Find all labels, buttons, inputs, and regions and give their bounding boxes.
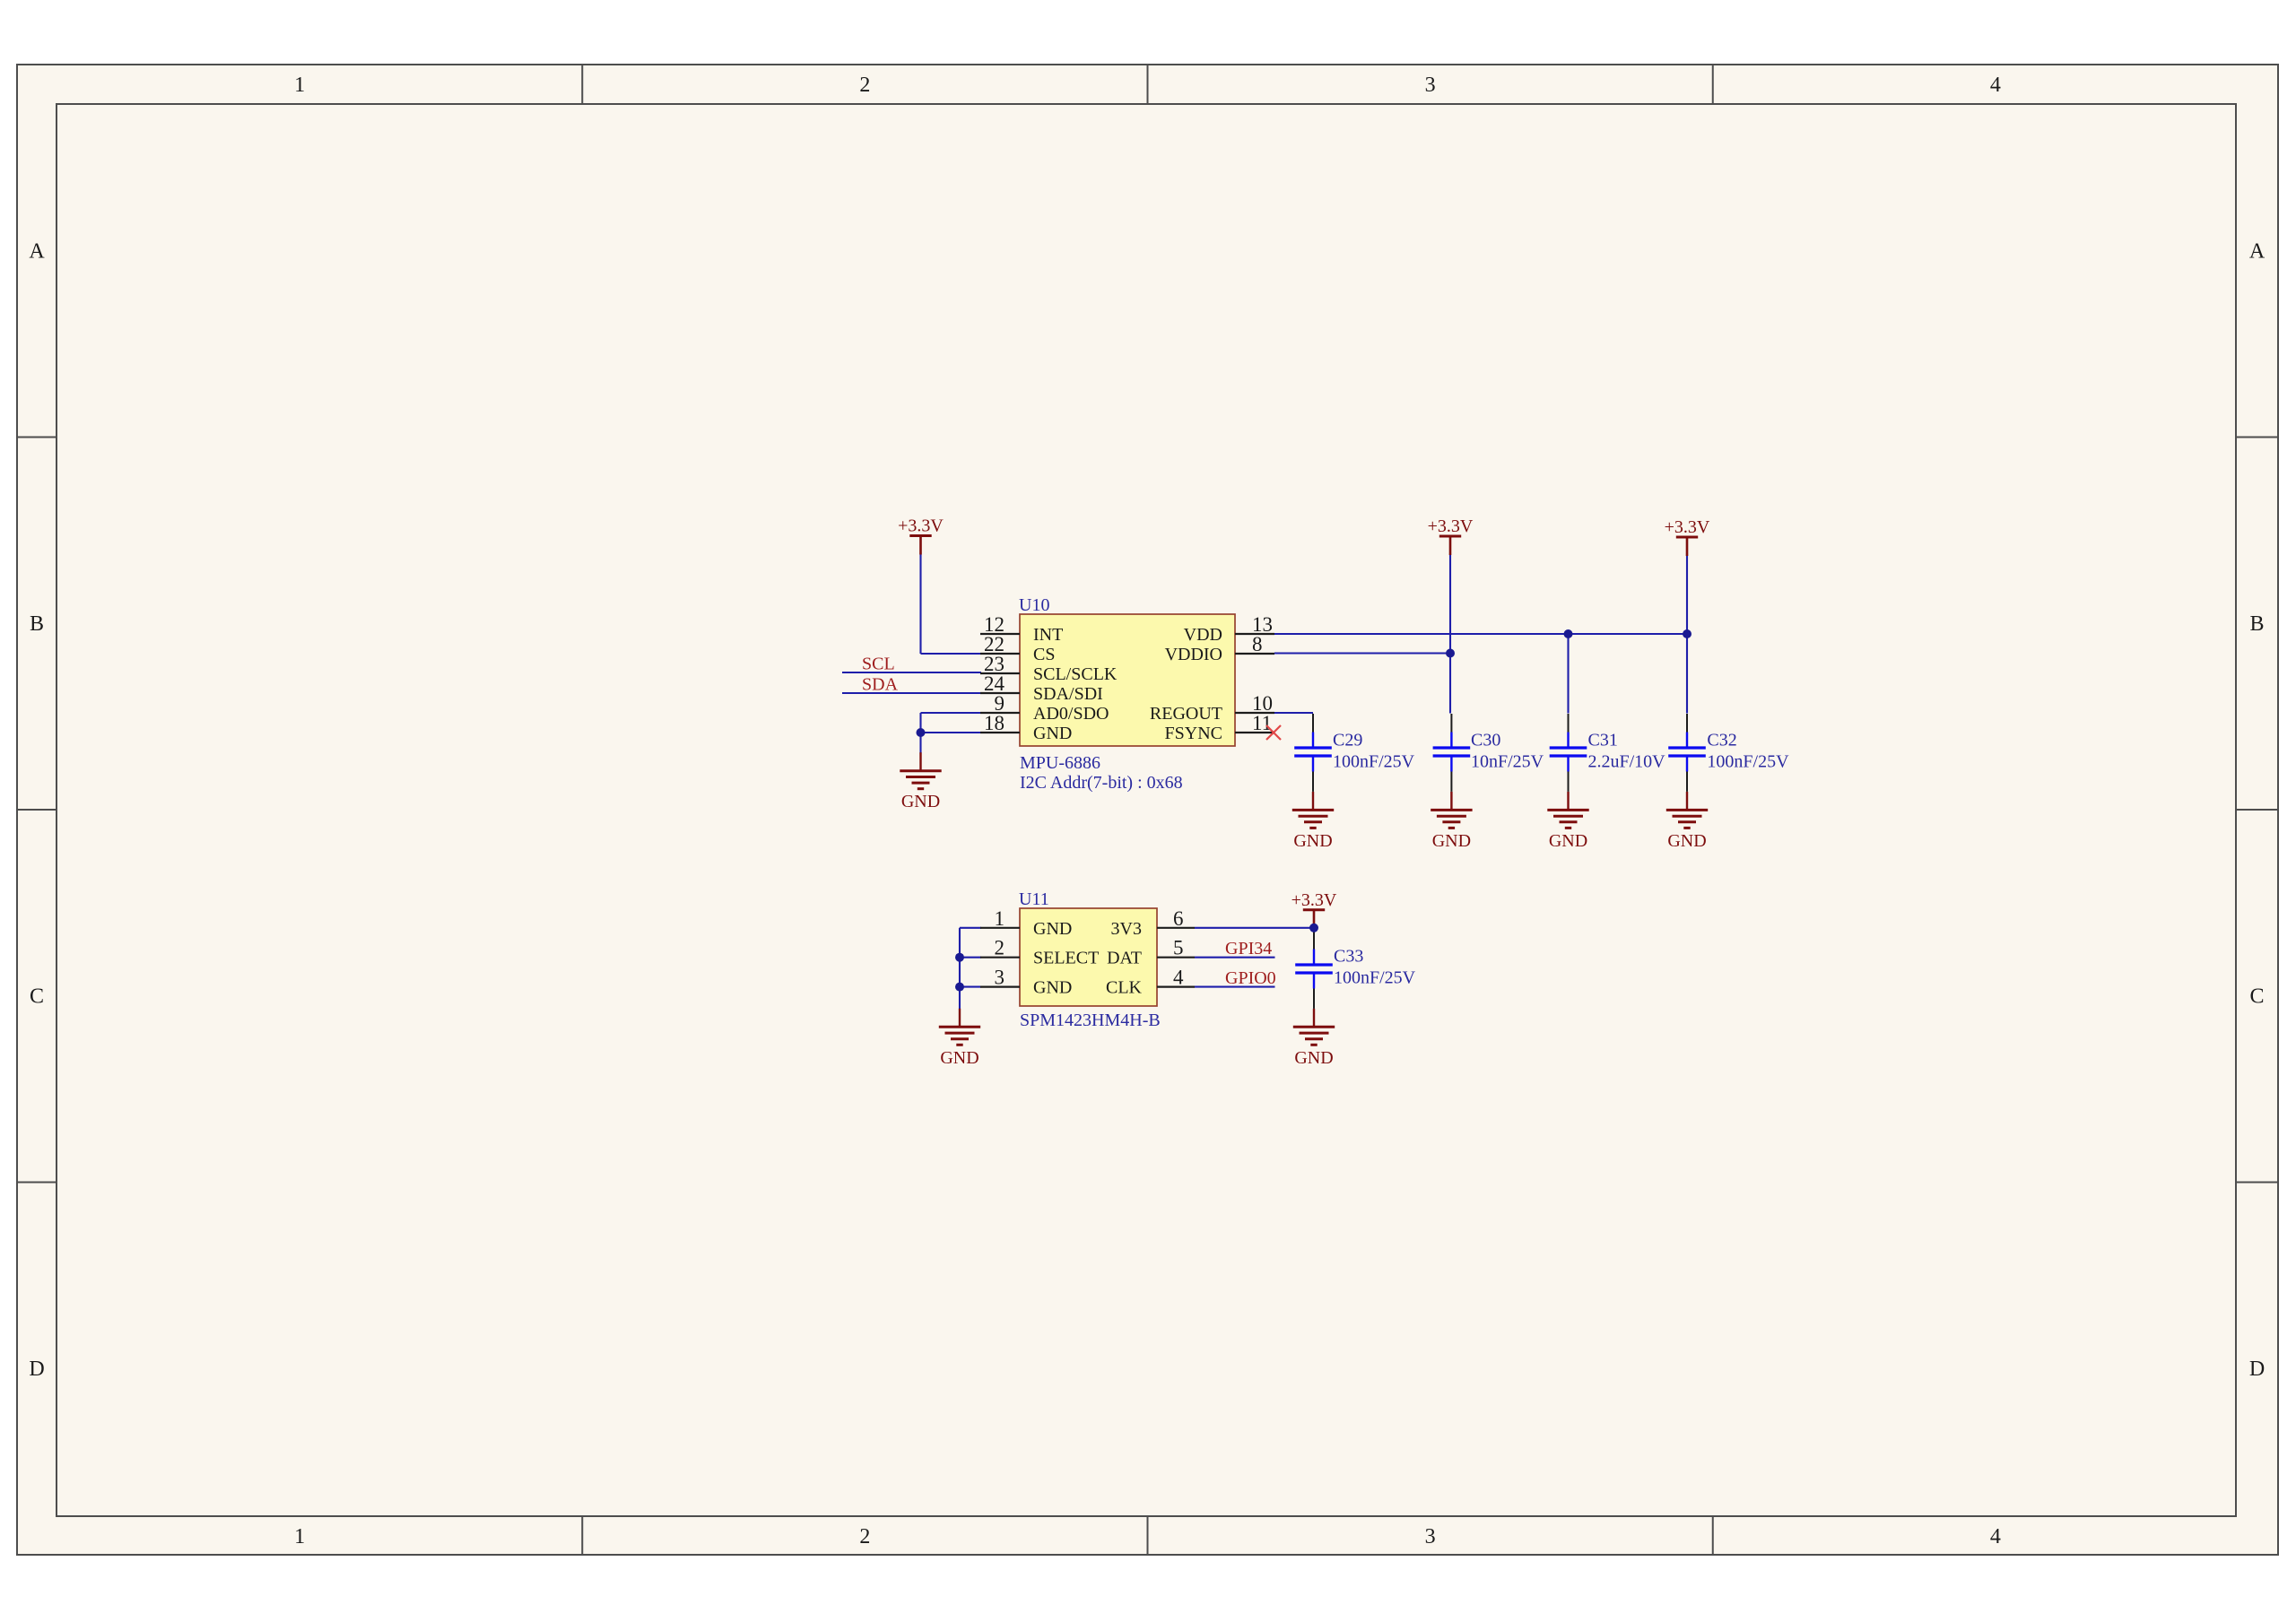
wire U11 pin3 stub — [960, 986, 981, 988]
svg-text:+3.3V: +3.3V — [1291, 890, 1337, 910]
wire net GPI34 — [1195, 957, 1275, 958]
svg-text:SCL: SCL — [862, 655, 895, 674]
U10 pin 12 INT — [980, 613, 1063, 645]
svg-text:U11: U11 — [1019, 889, 1049, 909]
ground (C30) — [1431, 792, 1472, 851]
junction VDDIO/C30 — [1446, 649, 1455, 658]
svg-text:CS: CS — [1033, 645, 1055, 664]
svg-text:3: 3 — [1425, 1525, 1436, 1548]
U11 pin 1 GND — [980, 907, 1072, 939]
power +3.3V (C32/VDD) — [1665, 517, 1710, 556]
ground (C31) — [1547, 792, 1588, 851]
label C29 value — [1333, 731, 1415, 772]
capacitor C33 — [1295, 931, 1333, 1009]
svg-text:REGOUT: REGOUT — [1150, 704, 1222, 724]
svg-text:B: B — [2249, 612, 2264, 636]
svg-text:GPI34: GPI34 — [1225, 939, 1272, 958]
svg-text:GND: GND — [1432, 831, 1471, 851]
svg-text:4: 4 — [1990, 74, 2001, 97]
U11 pin 4 CLK — [1106, 967, 1195, 998]
svg-text:18: 18 — [984, 712, 1004, 734]
junction U11 pin2 — [955, 953, 964, 962]
U10 pin 8 VDDIO — [1165, 633, 1274, 664]
U10 pin 24 SDA/SDI — [980, 672, 1103, 704]
wire U10 AD0 to GND vertical — [919, 713, 921, 753]
power +3.3V (U11/C33) — [1291, 890, 1337, 929]
svg-text:100nF/25V: 100nF/25V — [1707, 752, 1789, 772]
svg-text:A: A — [2249, 240, 2266, 264]
svg-text:U10: U10 — [1019, 595, 1049, 615]
svg-text:FSYNC: FSYNC — [1165, 724, 1222, 743]
svg-text:10nF/25V: 10nF/25V — [1471, 752, 1544, 772]
svg-text:VDD: VDD — [1184, 625, 1222, 645]
frame row ticks — [17, 438, 2278, 1183]
U10 pin 23 SCL/SCLK — [980, 653, 1118, 684]
svg-text:VDDIO: VDDIO — [1165, 645, 1222, 664]
U11 pin 5 DAT — [1107, 937, 1195, 968]
junction VDD/C31 — [1564, 629, 1573, 638]
svg-text:+3.3V: +3.3V — [1428, 516, 1474, 536]
wire +3.3V to U10 CS horizontal — [921, 653, 982, 655]
junction U11 3V3/C33 — [1309, 924, 1318, 932]
svg-text:C30: C30 — [1471, 731, 1500, 750]
svg-text:SDA: SDA — [862, 675, 899, 695]
svg-text:SDA/SDI: SDA/SDI — [1033, 684, 1103, 704]
wire U11 pin1 stub — [960, 927, 981, 929]
label C30 value — [1471, 731, 1544, 772]
svg-text:1: 1 — [294, 1525, 305, 1548]
junction U10 GND/AD0 — [917, 728, 926, 737]
svg-text:2: 2 — [859, 1525, 870, 1548]
svg-text:GND: GND — [1033, 724, 1072, 743]
wire +3.3V to C30 vertical — [1449, 553, 1451, 714]
U10 pin 18 GND — [980, 712, 1072, 743]
U11 pin 3 GND — [980, 967, 1072, 998]
junction U11 pin3 — [955, 983, 964, 992]
svg-text:GND: GND — [1667, 831, 1706, 851]
ground (U10 GND pin) — [900, 752, 941, 811]
svg-text:B: B — [30, 612, 44, 636]
wire U11 left bus vertical — [959, 928, 961, 1009]
svg-text:C29: C29 — [1333, 731, 1362, 750]
svg-text:SPM1423HM4H-B: SPM1423HM4H-B — [1020, 1010, 1161, 1030]
U10 pin 9 AD0/SDO — [980, 692, 1109, 724]
U10 pin 11 FSYNC — [1165, 712, 1274, 743]
wire U10 GND pin horizontal — [921, 732, 982, 733]
svg-text:SELECT: SELECT — [1033, 949, 1099, 968]
capacitor C32 — [1668, 714, 1706, 792]
svg-text:C33: C33 — [1334, 947, 1363, 967]
svg-text:C: C — [30, 985, 44, 1009]
svg-text:C: C — [2249, 985, 2264, 1009]
svg-text:CLK: CLK — [1106, 978, 1143, 998]
svg-text:8: 8 — [1252, 633, 1263, 655]
svg-text:GND: GND — [1033, 978, 1072, 998]
U10 pin 10 REGOUT — [1150, 692, 1274, 724]
U11 pin 6 3V3 — [1111, 907, 1195, 939]
svg-text:3: 3 — [1425, 74, 1436, 97]
wire VDD to C31 vertical — [1567, 634, 1569, 714]
svg-text:SCL/SCLK: SCL/SCLK — [1033, 664, 1118, 684]
svg-text:C32: C32 — [1707, 731, 1736, 750]
svg-text:5: 5 — [1173, 937, 1184, 959]
ground (C32) — [1666, 792, 1708, 851]
wire +3.3V to U10 CS vertical — [919, 553, 921, 655]
wire U11 pin2 stub — [960, 957, 981, 958]
svg-text:1: 1 — [995, 907, 1005, 930]
svg-text:3: 3 — [995, 967, 1005, 989]
svg-text:INT: INT — [1033, 625, 1063, 645]
wire net SDA — [842, 692, 981, 694]
svg-text:100nF/25V: 100nF/25V — [1333, 752, 1415, 772]
capacitor C29 — [1294, 714, 1332, 792]
no-connect X on U10 pin 11 FSYNC — [1266, 725, 1281, 740]
power +3.3V (U10 CS) — [898, 516, 944, 555]
junction VDD/C32 — [1683, 629, 1692, 638]
svg-text:4: 4 — [1990, 1525, 2001, 1548]
svg-text:1: 1 — [294, 74, 305, 97]
capacitor C31 — [1550, 714, 1587, 792]
svg-text:11: 11 — [1252, 712, 1272, 734]
svg-text:6: 6 — [1173, 907, 1184, 930]
svg-text:2.2uF/10V: 2.2uF/10V — [1588, 752, 1666, 772]
ground (C29) — [1292, 792, 1334, 851]
frame row labels — [29, 240, 2266, 1382]
svg-text:GND: GND — [1294, 1048, 1333, 1068]
svg-text:DAT: DAT — [1107, 949, 1142, 968]
svg-text:GND: GND — [1293, 831, 1332, 851]
svg-text:2: 2 — [995, 937, 1005, 959]
frame column ticks — [582, 65, 1713, 1555]
svg-text:MPU-6886: MPU-6886 — [1020, 753, 1100, 773]
ground (U11 pins) — [939, 1009, 980, 1068]
wire net SCL — [842, 672, 981, 673]
svg-text:AD0/SDO: AD0/SDO — [1033, 704, 1109, 724]
wire U11 3V3 to +3.3V/C33 — [1195, 927, 1314, 929]
svg-text:100nF/25V: 100nF/25V — [1334, 968, 1416, 988]
svg-text:GPIO0: GPIO0 — [1225, 968, 1276, 988]
frame column labels — [294, 74, 2001, 1548]
wire VDD rail — [1274, 633, 1687, 635]
label C33 value — [1334, 947, 1416, 988]
svg-text:+3.3V: +3.3V — [1665, 517, 1710, 537]
svg-text:+3.3V: +3.3V — [898, 516, 944, 536]
wire net GPIO0 — [1195, 986, 1275, 988]
U11 pin 2 SELECT — [980, 937, 1099, 968]
svg-text:D: D — [29, 1357, 44, 1381]
svg-text:GND: GND — [1549, 831, 1587, 851]
svg-text:I2C Addr(7-bit) : 0x68: I2C Addr(7-bit) : 0x68 — [1020, 773, 1183, 793]
label C32 value — [1707, 731, 1789, 772]
svg-text:D: D — [2249, 1357, 2265, 1381]
wire VDDIO rail — [1274, 652, 1450, 654]
wire REGOUT to C29 — [1274, 712, 1313, 714]
svg-text:GND: GND — [1033, 919, 1072, 939]
wire +3.3V to C32 vertical — [1686, 553, 1688, 714]
U10 pin 13 VDD — [1184, 613, 1274, 645]
wire U10 AD0/SDO horizontal — [921, 712, 982, 714]
svg-text:2: 2 — [859, 74, 870, 97]
op-amp U11 body (SPM1423HM4H-B microphone) — [1020, 908, 1157, 1006]
U10 pin 22 CS — [980, 633, 1055, 664]
svg-text:GND: GND — [940, 1048, 978, 1068]
svg-text:A: A — [29, 240, 45, 264]
svg-text:GND: GND — [901, 792, 940, 811]
capacitor C30 — [1433, 714, 1471, 792]
label C31 value — [1588, 731, 1666, 772]
power +3.3V (C30/VDDIO) — [1428, 516, 1474, 555]
svg-text:4: 4 — [1173, 967, 1184, 989]
op-amp U10 body (MPU-6886) — [1020, 614, 1235, 746]
svg-text:C31: C31 — [1588, 731, 1618, 750]
svg-text:3V3: 3V3 — [1111, 919, 1142, 939]
ground (C33) — [1293, 1009, 1335, 1068]
